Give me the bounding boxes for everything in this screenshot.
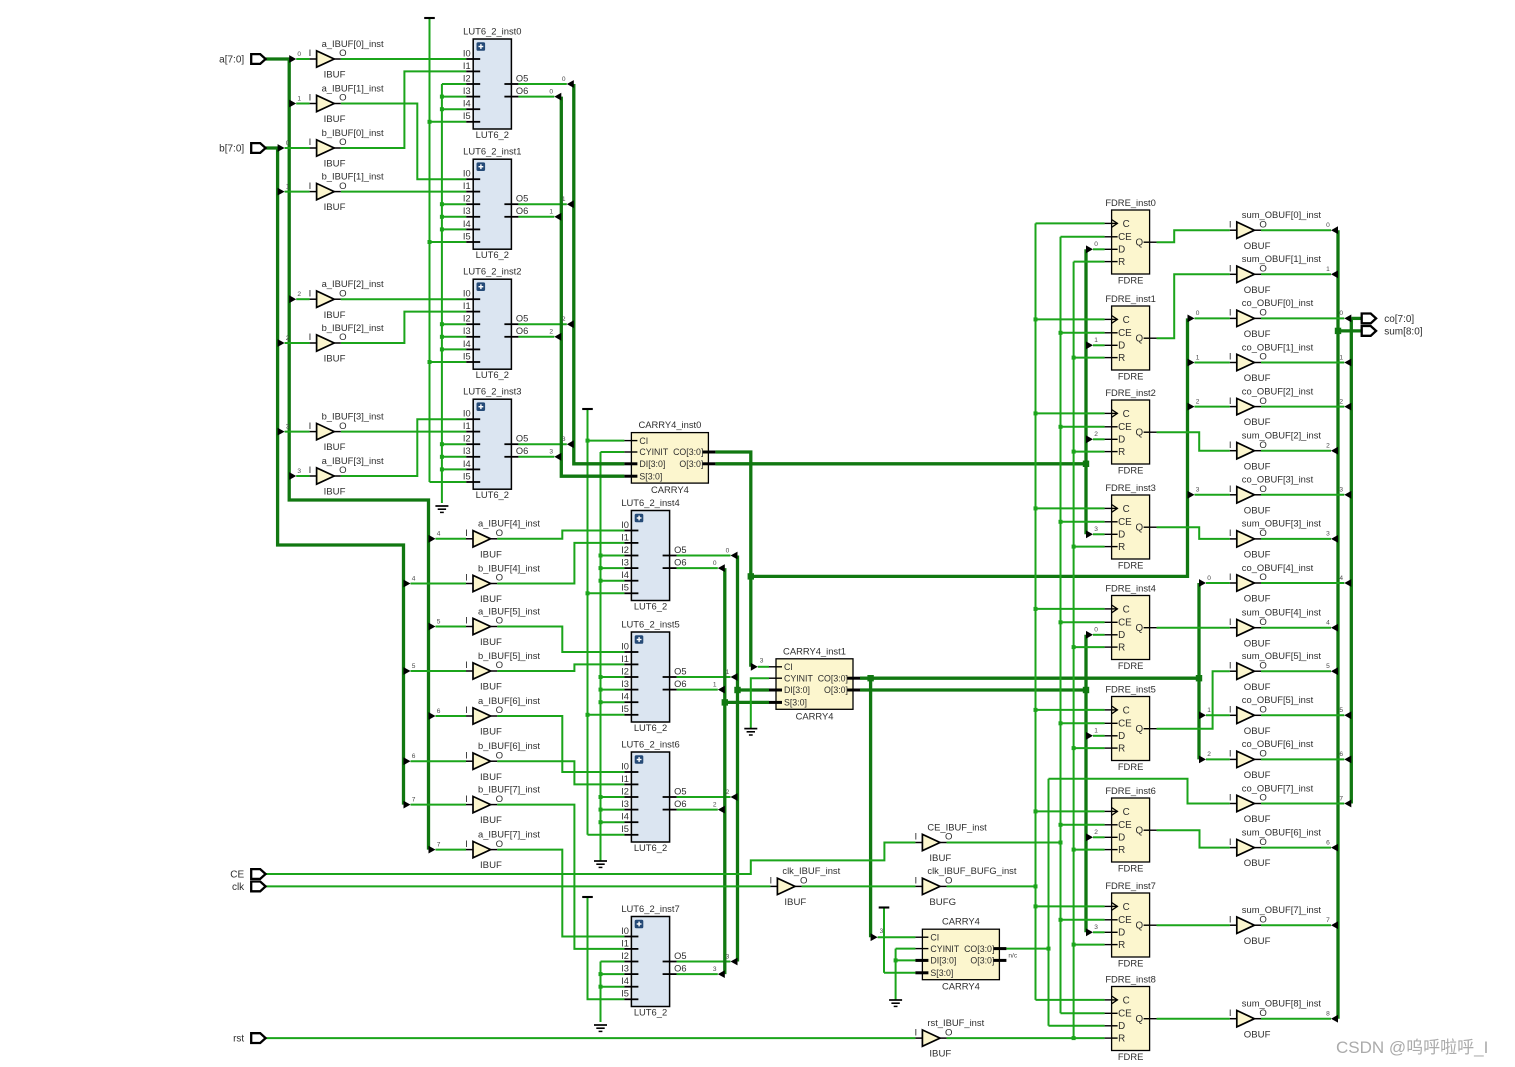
svg-text:I0: I0 — [463, 289, 471, 299]
svg-text:I: I — [465, 616, 468, 627]
svg-text:CARRY4_inst0: CARRY4_inst0 — [638, 419, 701, 430]
svg-text:LUT6_2: LUT6_2 — [476, 489, 509, 500]
svg-text:O[3:0]: O[3:0] — [824, 685, 848, 695]
svg-text:CO[3:0]: CO[3:0] — [818, 673, 848, 683]
svg-text:I3: I3 — [463, 326, 471, 336]
buffer rst_IBUF_inst — [914, 1017, 984, 1060]
svg-text:I: I — [309, 465, 312, 476]
wire a_IBUF[3] net — [341, 419, 466, 476]
buffer co_OBUF[7]_inst — [1229, 782, 1314, 825]
buffer a_IBUF[7]_inst — [465, 828, 540, 871]
svg-text:I: I — [769, 876, 772, 887]
svg-text:D: D — [1118, 928, 1125, 939]
flip-flop FDRE_inst0 — [1105, 197, 1157, 286]
buffer b_IBUF[0]_inst — [309, 127, 384, 170]
svg-text:1: 1 — [1339, 354, 1343, 361]
svg-text:I2: I2 — [463, 194, 471, 204]
svg-text:O5: O5 — [516, 194, 528, 204]
svg-text:I: I — [914, 876, 917, 887]
svg-text:D: D — [1118, 833, 1125, 844]
buffer co_OBUF[0]_inst — [1229, 297, 1314, 340]
svg-text:O: O — [496, 750, 503, 761]
svg-text:I3: I3 — [621, 964, 629, 974]
svg-text:R: R — [1118, 1034, 1125, 1045]
svg-text:OBUF: OBUF — [1244, 329, 1271, 340]
svg-text:sum_OBUF[1]_inst: sum_OBUF[1]_inst — [1242, 253, 1322, 264]
flip-flop FDRE_inst7 — [1105, 880, 1157, 969]
svg-text:CE: CE — [1118, 422, 1132, 433]
svg-text:O5: O5 — [516, 73, 528, 83]
node const rail column1 (T symbol net) — [429, 18, 431, 482]
svg-text:I2: I2 — [621, 666, 629, 676]
svg-text:I: I — [309, 137, 312, 148]
svg-text:O: O — [496, 573, 503, 584]
svg-text:0: 0 — [1207, 575, 1211, 582]
svg-text:I1: I1 — [463, 421, 471, 431]
svg-text:Q: Q — [1135, 724, 1143, 735]
svg-text:CYINIT: CYINIT — [784, 673, 813, 683]
svg-text:I: I — [309, 421, 312, 432]
svg-text:I4: I4 — [463, 339, 471, 349]
svg-text:8: 8 — [1326, 1011, 1330, 1018]
svg-text:O: O — [339, 332, 346, 343]
svg-text:Q: Q — [1135, 523, 1143, 534]
buffer co_OBUF[5]_inst — [1229, 694, 1314, 737]
svg-text:IBUF: IBUF — [480, 682, 502, 693]
buffer b_IBUF[2]_inst — [309, 322, 384, 365]
svg-text:I4: I4 — [463, 459, 471, 469]
svg-text:CE: CE — [1118, 820, 1132, 831]
buffer sum_OBUF[7]_inst — [1229, 904, 1322, 947]
svg-text:I: I — [465, 750, 468, 761]
svg-text:I: I — [1229, 572, 1232, 583]
svg-text:3: 3 — [286, 423, 290, 430]
port sum[8:0] — [1362, 326, 1423, 337]
svg-text:O: O — [339, 421, 346, 432]
svg-text:IBUF: IBUF — [480, 860, 502, 871]
svg-text:I4: I4 — [621, 570, 629, 580]
svg-text:sum_OBUF[2]_inst: sum_OBUF[2]_inst — [1242, 430, 1322, 441]
svg-text:OBUF: OBUF — [1244, 858, 1271, 869]
svg-text:b[7:0]: b[7:0] — [219, 144, 244, 155]
svg-text:O: O — [1259, 837, 1266, 848]
svg-text:OBUF: OBUF — [1244, 814, 1271, 825]
svg-text:O5: O5 — [674, 545, 686, 555]
svg-text:a_IBUF[4]_inst: a_IBUF[4]_inst — [478, 518, 540, 529]
svg-text:LUT6_2_inst2: LUT6_2_inst2 — [463, 266, 521, 277]
svg-text:2: 2 — [297, 291, 301, 298]
svg-text:7: 7 — [437, 841, 441, 848]
ground symbol column2 — [594, 861, 607, 867]
wire b_IBUF[3] net — [341, 431, 466, 433]
svg-text:co_OBUF[6]_inst: co_OBUF[6]_inst — [1242, 738, 1314, 749]
buffer co_OBUF[4]_inst — [1229, 562, 1314, 605]
svg-text:O: O — [1259, 484, 1266, 495]
wire b_IBUF[4] net — [497, 543, 624, 584]
svg-text:LUT6_2: LUT6_2 — [634, 601, 667, 612]
svg-text:O6: O6 — [674, 799, 686, 809]
svg-text:4: 4 — [1339, 575, 1343, 582]
svg-text:co_OBUF[7]_inst: co_OBUF[7]_inst — [1242, 782, 1314, 793]
svg-text:I: I — [1229, 793, 1232, 804]
svg-text:0: 0 — [1326, 222, 1330, 229]
svg-text:sum_OBUF[8]_inst: sum_OBUF[8]_inst — [1242, 998, 1322, 1009]
svg-text:I: I — [1229, 352, 1232, 363]
svg-text:I2: I2 — [621, 545, 629, 555]
svg-text:FDRE: FDRE — [1118, 371, 1144, 382]
svg-text:I3: I3 — [463, 86, 471, 96]
wire CO[3:0] bus of CARRY4_inst1 — [860, 677, 1199, 680]
wire O[3:0] bus of CARRY4_inst1 — [860, 688, 1086, 691]
svg-text:CE: CE — [1118, 618, 1132, 629]
svg-text:I0: I0 — [463, 409, 471, 419]
svg-text:I2: I2 — [621, 951, 629, 961]
wire sum[8:0] output bus — [1336, 230, 1339, 1019]
svg-text:CE: CE — [1118, 719, 1132, 730]
svg-text:R: R — [1118, 257, 1125, 268]
wire FDRE_inst0 Q to sum_OBUF[0] — [1157, 230, 1230, 242]
buffer sum_OBUF[6]_inst — [1229, 826, 1322, 869]
svg-text:b_IBUF[2]_inst: b_IBUF[2]_inst — [322, 322, 384, 333]
svg-text:sum_OBUF[3]_inst: sum_OBUF[3]_inst — [1242, 518, 1322, 529]
svg-text:D: D — [1118, 341, 1125, 352]
svg-text:1: 1 — [1207, 707, 1211, 714]
svg-text:O6: O6 — [516, 446, 528, 456]
svg-text:O6: O6 — [674, 964, 686, 974]
svg-text:O: O — [1259, 572, 1266, 583]
svg-text:I5: I5 — [463, 111, 471, 121]
svg-text:I1: I1 — [621, 532, 629, 542]
buffer a_IBUF[5]_inst — [465, 605, 540, 648]
flip-flop FDRE_inst1 — [1105, 293, 1157, 382]
svg-text:I: I — [1229, 264, 1232, 275]
wire a_IBUF[0] net — [341, 58, 466, 60]
svg-text:I1: I1 — [463, 181, 471, 191]
svg-text:3: 3 — [562, 436, 566, 443]
svg-text:OBUF: OBUF — [1244, 461, 1271, 472]
svg-text:3: 3 — [726, 953, 730, 960]
svg-text:sum_OBUF[7]_inst: sum_OBUF[7]_inst — [1242, 904, 1322, 915]
svg-text:n/c: n/c — [1008, 953, 1017, 960]
svg-text:OBUF: OBUF — [1244, 936, 1271, 947]
wire FDRE_inst1 Q to sum_OBUF[1] — [1157, 274, 1230, 338]
svg-text:IBUF: IBUF — [480, 815, 502, 826]
svg-text:OBUF: OBUF — [1244, 770, 1271, 781]
wire O6 bus column2 (S[3:0] of CARRY4_inst1) — [723, 568, 726, 974]
svg-text:co_OBUF[4]_inst: co_OBUF[4]_inst — [1242, 562, 1314, 573]
svg-text:O6: O6 — [516, 86, 528, 96]
svg-text:LUT6_2_inst3: LUT6_2_inst3 — [463, 386, 521, 397]
svg-text:FDRE: FDRE — [1118, 465, 1144, 476]
svg-text:1: 1 — [549, 209, 553, 216]
svg-text:1: 1 — [726, 669, 730, 676]
svg-text:O: O — [496, 528, 503, 539]
const T symbol CARRY4 #3 S input — [879, 906, 890, 908]
buffer b_IBUF[4]_inst — [465, 562, 540, 605]
svg-text:I5: I5 — [621, 824, 629, 834]
svg-text:OBUF: OBUF — [1244, 726, 1271, 737]
svg-text:O: O — [339, 288, 346, 299]
svg-text:CO[3:0]: CO[3:0] — [673, 447, 703, 457]
ground symbol CARRY4_inst1 CYINIT — [744, 729, 757, 735]
svg-text:O: O — [1259, 793, 1266, 804]
svg-text:CARRY4: CARRY4 — [942, 916, 980, 927]
svg-text:3: 3 — [1094, 526, 1098, 533]
buffer a_IBUF[1]_inst — [309, 82, 384, 125]
svg-text:O: O — [1259, 440, 1266, 451]
wire b[7:0] input bus — [266, 148, 404, 805]
svg-text:CARRY4_inst1: CARRY4_inst1 — [783, 645, 846, 656]
carry CARRY4_inst1 — [769, 645, 860, 721]
svg-text:O: O — [339, 93, 346, 104]
svg-text:O: O — [496, 705, 503, 716]
svg-text:3: 3 — [297, 468, 301, 475]
svg-text:clk: clk — [232, 882, 245, 893]
wire a_IBUF[7] net — [497, 850, 624, 937]
svg-text:b_IBUF[5]_inst: b_IBUF[5]_inst — [478, 650, 540, 661]
svg-text:1: 1 — [1094, 337, 1098, 344]
svg-text:D: D — [1118, 731, 1125, 742]
svg-text:0: 0 — [1094, 241, 1098, 248]
svg-text:I4: I4 — [463, 219, 471, 229]
svg-text:CI: CI — [784, 662, 793, 672]
svg-text:I: I — [914, 832, 917, 843]
svg-text:b_IBUF[6]_inst: b_IBUF[6]_inst — [478, 740, 540, 751]
svg-text:5: 5 — [412, 663, 416, 670]
svg-text:I5: I5 — [621, 583, 629, 593]
svg-text:FDRE: FDRE — [1118, 958, 1144, 969]
svg-text:IBUF: IBUF — [480, 772, 502, 783]
svg-text:O: O — [1259, 749, 1266, 760]
port co[7:0] — [1362, 314, 1415, 325]
wire clk net: port->IBUF->BUFG->C rail — [266, 885, 771, 887]
svg-text:3: 3 — [760, 658, 764, 665]
svg-text:LUT6_2: LUT6_2 — [476, 249, 509, 260]
svg-text:LUT6_2: LUT6_2 — [476, 129, 509, 140]
svg-text:DI[3:0]: DI[3:0] — [784, 685, 810, 695]
svg-text:CI: CI — [639, 436, 648, 446]
svg-text:I5: I5 — [463, 471, 471, 481]
svg-text:C: C — [1123, 807, 1130, 818]
svg-text:OBUF: OBUF — [1244, 241, 1271, 252]
svg-text:0: 0 — [713, 560, 717, 567]
svg-text:2: 2 — [286, 335, 290, 342]
flip-flop FDRE_inst4 — [1105, 582, 1157, 671]
svg-text:CO[3:0]: CO[3:0] — [964, 944, 994, 954]
svg-text:O5: O5 — [516, 434, 528, 444]
svg-text:sum_OBUF[0]_inst: sum_OBUF[0]_inst — [1242, 209, 1322, 220]
buffer co_OBUF[6]_inst — [1229, 738, 1314, 781]
svg-text:I1: I1 — [621, 774, 629, 784]
svg-text:O: O — [1259, 396, 1266, 407]
svg-text:4: 4 — [1326, 620, 1330, 627]
svg-text:LUT6_2: LUT6_2 — [476, 369, 509, 380]
svg-text:O: O — [1259, 914, 1266, 925]
svg-text:I1: I1 — [463, 61, 471, 71]
svg-text:C: C — [1123, 902, 1130, 913]
svg-text:I: I — [309, 332, 312, 343]
svg-text:I3: I3 — [621, 679, 629, 689]
svg-text:IBUF: IBUF — [480, 637, 502, 648]
svg-text:O: O — [339, 137, 346, 148]
svg-text:O6: O6 — [674, 679, 686, 689]
svg-text:CE: CE — [1118, 517, 1132, 528]
wire b_IBUF[5] net — [497, 664, 624, 671]
svg-text:I: I — [1229, 484, 1232, 495]
svg-text:a_IBUF[6]_inst: a_IBUF[6]_inst — [478, 695, 540, 706]
svg-text:O: O — [1259, 705, 1266, 716]
svg-text:b_IBUF[4]_inst: b_IBUF[4]_inst — [478, 562, 540, 573]
svg-text:FDRE_inst8: FDRE_inst8 — [1105, 973, 1156, 984]
svg-text:2: 2 — [562, 316, 566, 323]
svg-text:S[3:0]: S[3:0] — [784, 698, 807, 708]
wire O5 bus column1 (DI[3:0] of CARRY4_inst0) — [574, 84, 625, 464]
svg-text:CARRY4: CARRY4 — [796, 710, 834, 721]
svg-text:I: I — [309, 48, 312, 59]
svg-text:R: R — [1118, 447, 1125, 458]
svg-text:OBUF: OBUF — [1244, 638, 1271, 649]
svg-text:FDRE_inst2: FDRE_inst2 — [1105, 387, 1156, 398]
svg-text:IBUF: IBUF — [324, 114, 346, 125]
ground symbol LUT7 — [594, 1025, 607, 1031]
wire a[7:0] input bus — [266, 59, 429, 850]
node ground rail column1 — [441, 84, 443, 503]
svg-text:IBUF: IBUF — [324, 487, 346, 498]
svg-text:2: 2 — [1094, 431, 1098, 438]
svg-text:R: R — [1118, 940, 1125, 951]
svg-text:I: I — [1229, 308, 1232, 319]
svg-text:0: 0 — [286, 140, 290, 147]
svg-text:O: O — [1259, 1008, 1266, 1019]
wire O5 bus column2 (DI[3:0] of CARRY4_inst1) — [736, 556, 739, 962]
svg-text:7: 7 — [1339, 795, 1343, 802]
const T symbol column2 — [582, 408, 593, 410]
svg-text:FDRE: FDRE — [1118, 560, 1144, 571]
svg-text:2: 2 — [713, 801, 717, 808]
svg-text:FDRE_inst0: FDRE_inst0 — [1105, 197, 1156, 208]
svg-text:a_IBUF[3]_inst: a_IBUF[3]_inst — [322, 455, 384, 466]
svg-text:Q: Q — [1135, 334, 1143, 345]
svg-text:O: O — [1259, 308, 1266, 319]
svg-text:I: I — [465, 528, 468, 539]
svg-text:I: I — [1229, 1008, 1232, 1019]
svg-text:a_IBUF[7]_inst: a_IBUF[7]_inst — [478, 828, 540, 839]
svg-text:I: I — [1229, 660, 1232, 671]
svg-text:1: 1 — [562, 196, 566, 203]
wire FDRE_inst3 Q to sum_OBUF[3] — [1157, 527, 1230, 539]
svg-text:b_IBUF[7]_inst: b_IBUF[7]_inst — [478, 783, 540, 794]
svg-text:IBUF: IBUF — [480, 549, 502, 560]
svg-text:IBUF: IBUF — [784, 897, 806, 908]
svg-text:O: O — [945, 832, 952, 843]
svg-text:I: I — [1229, 705, 1232, 716]
svg-text:O: O — [339, 465, 346, 476]
svg-text:I: I — [465, 573, 468, 584]
svg-text:IBUF: IBUF — [480, 727, 502, 738]
svg-text:R: R — [1118, 542, 1125, 553]
svg-text:I1: I1 — [621, 654, 629, 664]
svg-text:I0: I0 — [463, 169, 471, 179]
port a[7:0] — [219, 54, 265, 66]
svg-text:a[7:0]: a[7:0] — [219, 55, 244, 66]
svg-text:O[3:0]: O[3:0] — [970, 956, 994, 966]
buffer b_IBUF[6]_inst — [465, 740, 540, 783]
svg-text:O5: O5 — [674, 786, 686, 796]
svg-text:O: O — [800, 876, 807, 887]
svg-text:1: 1 — [286, 183, 290, 190]
svg-text:CYINIT: CYINIT — [639, 447, 668, 457]
svg-text:3: 3 — [1339, 487, 1343, 494]
buffer sum_OBUF[4]_inst — [1229, 607, 1322, 650]
buffer sum_OBUF[0]_inst — [1229, 209, 1322, 252]
svg-text:CSDN @呜呼啦呼_I: CSDN @呜呼啦呼_I — [1336, 1038, 1488, 1057]
buffer b_IBUF[7]_inst — [465, 783, 540, 826]
wire FDRE_inst6 Q to sum_OBUF[6] — [1157, 830, 1230, 847]
svg-text:I: I — [465, 794, 468, 805]
svg-text:5: 5 — [437, 618, 441, 625]
buffer sum_OBUF[5]_inst — [1229, 650, 1322, 693]
wire O6 bus column1 (S[3:0] of CARRY4_inst0) — [561, 97, 624, 477]
svg-text:CI: CI — [930, 932, 939, 942]
wire a_IBUF[1] net — [341, 104, 466, 180]
svg-text:I: I — [1229, 749, 1232, 760]
ground symbol column1 — [435, 506, 448, 512]
svg-text:IBUF: IBUF — [324, 310, 346, 321]
const T symbol column1 — [424, 17, 435, 19]
svg-text:FDRE: FDRE — [1118, 761, 1144, 772]
wire FDRE_inst2 Q to sum_OBUF[2] — [1157, 432, 1230, 451]
svg-text:sum_OBUF[6]_inst: sum_OBUF[6]_inst — [1242, 826, 1322, 837]
svg-text:Q: Q — [1135, 238, 1143, 249]
svg-text:rst_IBUF_inst: rst_IBUF_inst — [927, 1017, 984, 1028]
svg-text:OBUF: OBUF — [1244, 417, 1271, 428]
svg-text:6: 6 — [1326, 839, 1330, 846]
LUT U7 LUT6_2_inst7 — [621, 903, 686, 1018]
wire a_IBUF[2] net — [341, 298, 466, 300]
svg-text:FDRE: FDRE — [1118, 660, 1144, 671]
node const rail column2 (T symbol net) — [587, 409, 589, 835]
svg-text:I1: I1 — [621, 938, 629, 948]
svg-text:I: I — [465, 839, 468, 850]
flip-flop FDRE_inst6 — [1105, 785, 1157, 874]
svg-text:I: I — [465, 705, 468, 716]
svg-text:I1: I1 — [463, 301, 471, 311]
svg-text:co_OBUF[0]_inst: co_OBUF[0]_inst — [1242, 297, 1314, 308]
svg-text:1: 1 — [713, 681, 717, 688]
svg-text:LUT6_2: LUT6_2 — [634, 842, 667, 853]
buffer CE_IBUF_inst — [914, 821, 987, 864]
svg-text:DI[3:0]: DI[3:0] — [930, 956, 956, 966]
svg-text:3: 3 — [1094, 924, 1098, 931]
svg-text:I3: I3 — [621, 558, 629, 568]
svg-text:FDRE: FDRE — [1118, 275, 1144, 286]
buffer co_OBUF[1]_inst — [1229, 341, 1314, 384]
svg-text:O5: O5 — [674, 666, 686, 676]
svg-text:O: O — [339, 48, 346, 59]
svg-text:OBUF: OBUF — [1244, 285, 1271, 296]
svg-text:CARRY4: CARRY4 — [942, 981, 980, 992]
svg-text:IBUF: IBUF — [929, 853, 951, 864]
svg-text:LUT6_2: LUT6_2 — [634, 1007, 667, 1018]
svg-text:5: 5 — [1339, 707, 1343, 714]
wire co[7:0] output bus — [1350, 318, 1353, 803]
svg-text:0: 0 — [549, 88, 553, 95]
svg-text:IBUF: IBUF — [324, 70, 346, 81]
svg-text:O: O — [496, 839, 503, 850]
svg-text:2: 2 — [1339, 398, 1343, 405]
svg-text:BUFG: BUFG — [929, 897, 956, 908]
const T symbol LUT7 — [582, 896, 593, 898]
